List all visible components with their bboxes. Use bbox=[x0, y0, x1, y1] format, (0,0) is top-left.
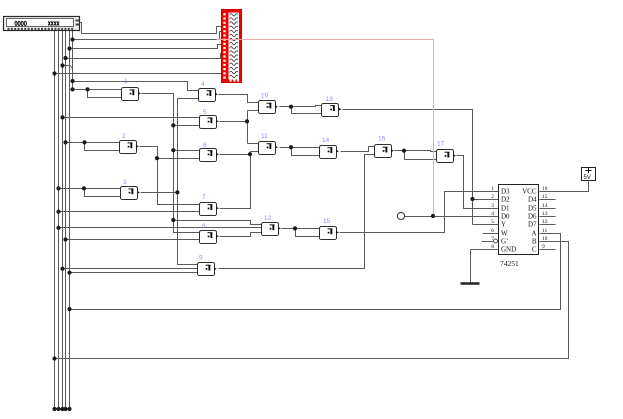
svg-text:16: 16 bbox=[378, 136, 386, 143]
gate U17 bbox=[437, 141, 456, 163]
wire bus4 to gate 8 pin3 bbox=[66, 239, 200, 241]
junction dot (404,150.7) bbox=[402, 149, 406, 153]
wire bus6 to gate 1 pin1 bbox=[73, 89, 122, 91]
junction dot (157,158.2) bbox=[155, 156, 159, 160]
wire bus5 to logic analyzer ch3 bbox=[70, 45, 223, 49]
wire gate 9 output to gate 16 pin3 bbox=[219, 155, 375, 269]
74251 pin 3 stub bbox=[488, 208, 499, 210]
junction dot (250,154.2) bbox=[248, 152, 252, 156]
junction dot (84.5,142.4) bbox=[82, 140, 86, 144]
wire bus line 6 (vertical, short) bbox=[72, 31, 74, 90]
svg-text:5: 5 bbox=[491, 219, 494, 225]
gate U11 bbox=[259, 133, 278, 155]
junction dot (65.5,58) bbox=[63, 56, 67, 60]
svg-text:Y: Y bbox=[501, 221, 506, 229]
74251 pin 15 stub bbox=[540, 199, 556, 201]
svg-text:74251: 74251 bbox=[500, 259, 519, 268]
svg-text:9: 9 bbox=[199, 255, 203, 262]
74251 pin 6 W stub bbox=[483, 233, 499, 235]
wire bus6 to gate 4 pin1 bbox=[73, 82, 199, 91]
wire bus line 5 (vertical) bbox=[69, 31, 71, 410]
svg-text:D7: D7 bbox=[528, 221, 537, 229]
junction dot (173.3,220) bbox=[171, 218, 175, 222]
junction dot (58.5,227.8) bbox=[56, 226, 60, 230]
svg-text:7: 7 bbox=[202, 194, 206, 201]
junction dot (472.5,199) bbox=[470, 197, 474, 201]
junction dot (177.4,192.4) bbox=[175, 190, 179, 194]
junction dot (58.5,188.4) bbox=[56, 186, 60, 190]
wire GND down bbox=[470, 250, 472, 284]
wire gate 12 output loop to gate 15 pin3 bbox=[296, 229, 320, 237]
svg-text:1: 1 bbox=[124, 78, 128, 85]
junction dot (87.5,89.4) bbox=[85, 87, 89, 91]
wire bus line 1 (vertical) bbox=[54, 31, 56, 410]
gate U5 bbox=[200, 109, 219, 128]
svg-text:12: 12 bbox=[542, 219, 548, 225]
svg-text:G’: G’ bbox=[501, 238, 508, 246]
wire bus2 to gate 7 pin3 bbox=[59, 211, 200, 213]
svg-text:1: 1 bbox=[491, 186, 494, 192]
wire branch to gate 6 pin1 bbox=[174, 150, 200, 152]
74251 pin 1 stub bbox=[488, 191, 499, 193]
svg-text:13: 13 bbox=[542, 211, 548, 217]
junction dot (62.5,409) bbox=[60, 407, 64, 411]
junction dot (65.5,142.4) bbox=[63, 140, 67, 144]
wire bus4 to gate 2 pin1 bbox=[66, 142, 120, 144]
svg-text:10: 10 bbox=[542, 236, 548, 242]
svg-text:D1: D1 bbox=[501, 205, 510, 213]
74251 pin 7 G' stub bbox=[482, 241, 494, 243]
svg-text:GND: GND bbox=[501, 246, 516, 254]
wire gate 16 output to gate 17 pin1 bbox=[395, 151, 437, 152]
svg-text:8: 8 bbox=[491, 244, 494, 250]
wire gate 5 net to gate 10 pin3 bbox=[248, 110, 259, 112]
gate U6 bbox=[200, 142, 219, 162]
svg-text:16: 16 bbox=[542, 186, 548, 192]
wire bus2 to gate 3 pin1 bbox=[59, 188, 121, 190]
wire gate 2 output to gate 7 pin1 bbox=[140, 147, 200, 205]
junction dot (54.5,358.5) bbox=[52, 356, 56, 360]
5V power source V1 bbox=[582, 168, 596, 182]
wire bus2 to gate 12 pin2 (long) bbox=[59, 227, 262, 229]
svg-text:11: 11 bbox=[542, 228, 548, 234]
gate U10 bbox=[259, 93, 278, 114]
junction dot (84,188.4) bbox=[82, 186, 86, 190]
wire gate 13 output to D2/D0/Y net bbox=[343, 110, 473, 225]
wire branch to gate 12 pin1 bbox=[174, 221, 262, 225]
svg-text:6: 6 bbox=[491, 228, 494, 234]
junction dot (291,106.7) bbox=[289, 105, 293, 109]
svg-text:D6: D6 bbox=[528, 213, 537, 221]
wire gate 5 output junction bbox=[220, 121, 248, 123]
svg-text:15: 15 bbox=[323, 218, 331, 225]
wire gate 4 output to gate 10 pin1 bbox=[219, 95, 259, 103]
junction dot (54.5,409) bbox=[52, 407, 56, 411]
74251 pin 8 GND wire bbox=[471, 249, 499, 251]
gate U7 bbox=[200, 194, 219, 216]
svg-text:W: W bbox=[501, 230, 508, 238]
svg-text:D5: D5 bbox=[528, 205, 537, 213]
junction dot (58.5,211.7) bbox=[56, 210, 60, 214]
junction dot (69.5,309) bbox=[67, 307, 71, 311]
wire gate 5 net vertical bbox=[247, 111, 249, 144]
wire bus3 jog into bus line 6 bbox=[63, 66, 73, 76]
junction dot (173.3,125.4) bbox=[171, 123, 175, 127]
74251 pin 5 stub bbox=[488, 224, 499, 226]
wire bus6 to logic analyzer ch2 bbox=[73, 32, 223, 40]
svg-text:B: B bbox=[532, 238, 537, 246]
wire bus line 2 (vertical) bbox=[58, 31, 60, 410]
wire bus line 3 (vertical) bbox=[62, 31, 64, 410]
wire word-generator right pin to logic analyzer top bbox=[80, 23, 223, 34]
junction dot (433,216) red net bbox=[431, 214, 435, 218]
junction dot (72.5,39.5) bbox=[70, 37, 74, 41]
multiplexer U18 74251 bbox=[491, 185, 548, 269]
wire gate 10 output loop to gate 13 pin3 bbox=[292, 107, 322, 114]
wire bus1 to logic analyzer ch5 bbox=[55, 63, 223, 74]
wire bus5 to gate 9 pin3 bbox=[70, 272, 198, 274]
74251 pin 9 C stub bbox=[540, 249, 556, 251]
wire gate 12 output to gate 15 pin1 bbox=[282, 228, 320, 230]
wire loop to gate 2 pin3 bbox=[85, 143, 120, 151]
junction dot (247,121.4) bbox=[245, 119, 249, 123]
wire bus3 to gate 9 pin2 bbox=[63, 268, 198, 270]
junction dot (173.3,150.2) bbox=[171, 148, 175, 152]
svg-text:9: 9 bbox=[542, 244, 545, 250]
junction dot (295,228.4) bbox=[293, 226, 297, 230]
wire branch to gate 5 pin3 bbox=[174, 125, 200, 127]
gate U1 bbox=[122, 78, 141, 100]
wire to 74251 pin 2 D2 bbox=[473, 199, 488, 201]
junction dot (69.5,272.7) bbox=[67, 271, 71, 275]
wire to 74251 pin 4 D0 stub bbox=[473, 216, 488, 218]
svg-text:5V: 5V bbox=[584, 175, 591, 181]
svg-text:14: 14 bbox=[542, 203, 548, 209]
74251 pin 7 inversion bubble bbox=[494, 239, 498, 243]
svg-text:VCC: VCC bbox=[522, 188, 537, 196]
junction dot (69.5,48.5) bbox=[67, 46, 71, 50]
gate U12 bbox=[262, 215, 281, 235]
junction dot (69.5,409) bbox=[67, 407, 71, 411]
74251 pin 13 stub bbox=[540, 216, 556, 218]
wire gate 11 output loop to gate 14 pin3 bbox=[292, 148, 320, 156]
gate U16 bbox=[375, 136, 394, 158]
gate U3 bbox=[121, 179, 140, 199]
wire gate 1 output chain (vertical A) to gate 8 pin1 bbox=[142, 94, 200, 233]
svg-text:D4: D4 bbox=[528, 196, 537, 204]
gate U4 bbox=[199, 81, 218, 102]
wire gate 17 output to 74251 pin 3 D1 bbox=[457, 156, 488, 209]
svg-text:D3: D3 bbox=[501, 188, 510, 196]
svg-text:3: 3 bbox=[491, 203, 494, 209]
svg-text:7: 7 bbox=[491, 236, 494, 242]
svg-text:D2: D2 bbox=[501, 196, 510, 204]
wire gate 7 output up to gate 6 net bbox=[220, 155, 251, 209]
junction dot (58.5,409) bbox=[56, 407, 60, 411]
gate U13 bbox=[322, 96, 342, 117]
gate U9 bbox=[198, 255, 217, 276]
junction dot (72.5,89.4) bbox=[70, 87, 74, 91]
logic analyzer XLA1 (selected) bbox=[222, 10, 242, 83]
junction dot (65.5,409) bbox=[63, 407, 67, 411]
svg-text:C: C bbox=[532, 246, 537, 254]
word generator XWG1 bbox=[4, 17, 80, 31]
wire gate 15 output to 74251 pin 1 D3 bbox=[340, 192, 488, 233]
wire loop to gate 1 pin3 bbox=[88, 90, 122, 98]
wire bus5 to 74251 pin 11 A bbox=[70, 234, 561, 310]
wire to 74251 pin 5 Y stub bbox=[473, 224, 488, 226]
wire bus4 to logic analyzer ch4 bbox=[66, 54, 223, 59]
svg-text:6: 6 bbox=[203, 142, 207, 149]
wire vertical B gate 4 pin3 to gate 9 pin1 bbox=[178, 99, 199, 265]
wire branch to gate 3 pin3 bbox=[85, 189, 121, 197]
junction dot (62.5,65.5) bbox=[60, 63, 64, 67]
wire node circle to 74251 pin 4 D0 bbox=[405, 216, 473, 218]
wire bus1 to 74251 pin 10 B bbox=[55, 242, 569, 359]
gate U8 bbox=[200, 223, 219, 244]
svg-text:3: 3 bbox=[123, 179, 127, 186]
junction dot (62.5,268.7) bbox=[60, 267, 64, 271]
wire gate 11 output to gate 14 pin1 bbox=[280, 147, 320, 149]
junction dot (72.5,81) bbox=[70, 79, 74, 83]
junction dot (65.5,239.5) bbox=[63, 237, 67, 241]
gate U15 bbox=[320, 218, 339, 239]
svg-text:13: 13 bbox=[326, 96, 334, 103]
74251 pin 14 stub bbox=[540, 208, 556, 210]
wire gate 16 output loop to gate 17 pin3 bbox=[405, 151, 437, 160]
node open circle bbox=[397, 212, 404, 219]
74251 pin 4 stub bbox=[488, 216, 499, 218]
74251 pin 2 stub bbox=[488, 199, 499, 201]
svg-text:17: 17 bbox=[437, 141, 445, 148]
gate U14 bbox=[320, 137, 339, 159]
svg-text:4: 4 bbox=[201, 81, 205, 88]
svg-text:14: 14 bbox=[322, 137, 330, 144]
svg-text:A: A bbox=[531, 230, 536, 238]
wire bus3 to gate 5 pin1 bbox=[63, 117, 200, 119]
wire bus line 4 (vertical) bbox=[65, 31, 67, 410]
junction dot (62.5,117.4) bbox=[60, 115, 64, 119]
svg-text:15: 15 bbox=[542, 194, 548, 200]
junction dot (291,147.2) bbox=[289, 145, 293, 149]
wire gate 8 output to gate 12 pin3 bbox=[220, 233, 262, 237]
svg-text:2: 2 bbox=[491, 194, 494, 200]
wire gate 5 net to gate 11 pin1 bbox=[248, 143, 259, 145]
junction dot (54.5,73.5) bbox=[52, 71, 56, 75]
svg-text:10: 10 bbox=[261, 93, 269, 100]
74251 pin 16 VCC wire to 5V source bbox=[540, 182, 589, 192]
svg-text:4: 4 bbox=[491, 211, 494, 217]
svg-text:D0: D0 bbox=[501, 213, 510, 221]
svg-text:8: 8 bbox=[202, 223, 206, 230]
wire gate 14 output to gate 16 pin1 bbox=[341, 147, 375, 152]
74251 pin 12 stub bbox=[540, 224, 556, 226]
wire gate 10 output to gate 13 pin1 bbox=[280, 106, 322, 107]
gate U2 bbox=[120, 133, 139, 153]
svg-text:5: 5 bbox=[203, 109, 207, 116]
svg-text:12: 12 bbox=[264, 215, 272, 222]
ground GND1 bbox=[461, 282, 480, 284]
svg-text:2: 2 bbox=[122, 133, 126, 140]
svg-text:11: 11 bbox=[261, 133, 268, 140]
wire gate 6 output to gate 11 pin3 bbox=[220, 152, 259, 155]
wire gate 3 output to vertical B bbox=[141, 192, 178, 194]
wire branch to gate 6 pin3 bbox=[158, 158, 200, 160]
wire selected (red) from logic analyzer to D0 net bbox=[217, 40, 434, 217]
